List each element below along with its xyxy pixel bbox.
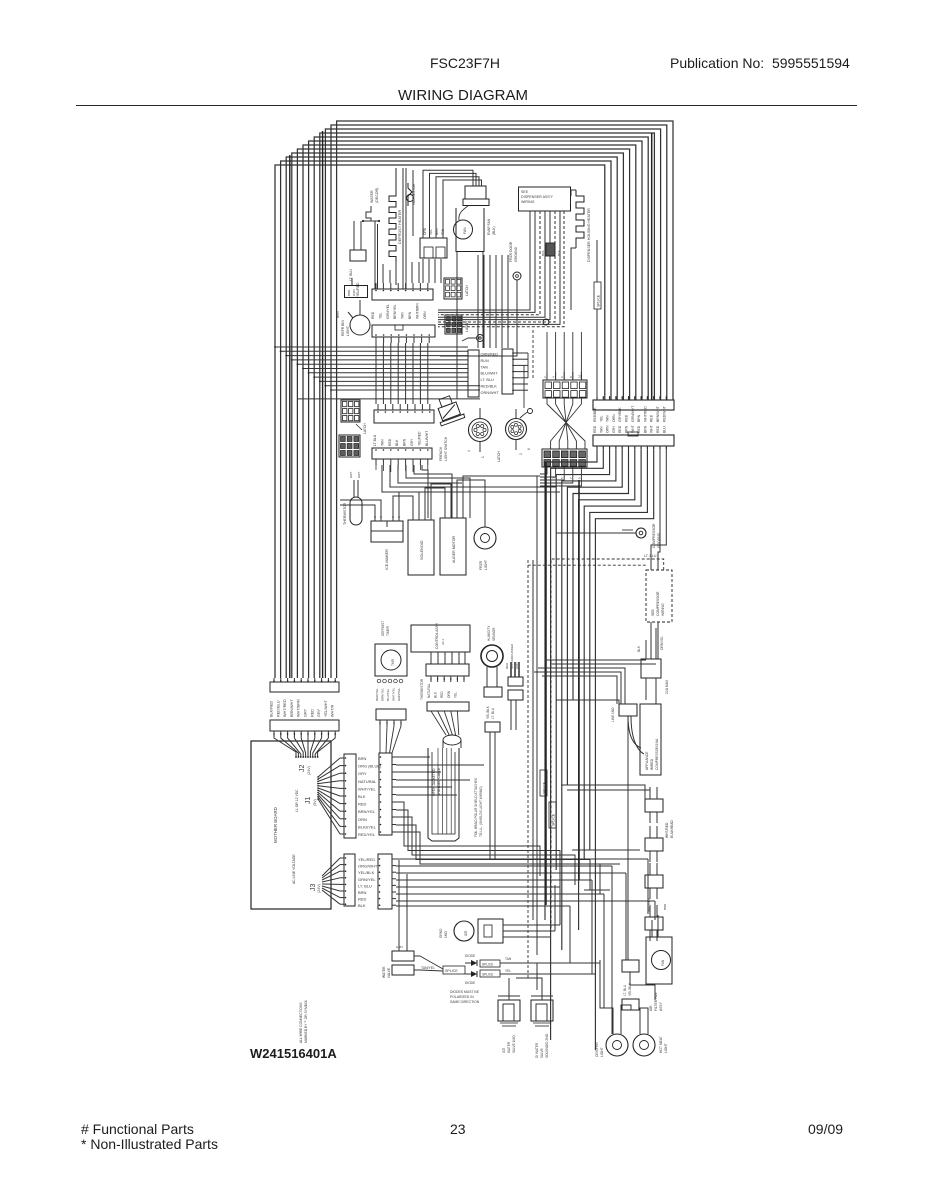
svg-text:RED: RED [505,662,509,669]
svg-text:LT. BLU: LT. BLU [623,984,627,996]
connector bar A1 (upper row) [371,283,433,319]
svg-text:BRN: BRN [643,425,647,433]
svg-text:HUMIDITY: HUMIDITY [487,625,491,641]
svg-text:(DECOR): (DECOR) [375,188,379,203]
svg-text:WATER: WATER [382,966,386,978]
svg-text:LT. BLU: LT. BLU [644,554,657,558]
ground eyelet near name strip [462,335,484,342]
svg-text:SPLICE: SPLICE [482,973,493,977]
header: publication number [670,55,850,71]
svg-text:ORN: ORN [423,311,427,319]
svg-text:SEE: SEE [651,608,655,616]
svg-text:YEL: YEL [599,415,603,422]
wire pair from junction row to bar A1 [375,221,378,289]
svg-text:BRN: BRN [336,311,340,318]
svg-text:BRN/YEL: BRN/YEL [358,809,376,814]
bottom long horizontal runs [510,880,600,974]
svg-text:FAN: FAN [661,959,665,966]
svg-text:ORG/WHT: ORG/WHT [358,864,378,869]
appliance wired compressor box [628,704,661,775]
latch 6-pin block C1 [341,400,367,434]
svg-text:TAN: TAN [606,415,610,422]
svg-text:GRY/BLK: GRY/BLK [618,407,622,422]
svg-text:LATCH: LATCH [363,423,367,434]
svg-text:YEL: YEL [453,692,457,698]
svg-text:LINE 1NO: LINE 1NO [611,707,615,722]
svg-text:COMPRESSOR: COMPRESSOR [652,523,656,548]
svg-text:FOIL BRAID POLAR SHIELD ATTACH: FOIL BRAID POLAR SHIELD ATTACHES [474,778,478,837]
control assy freezer box [420,664,469,700]
svg-text:LIGHT: LIGHT [346,326,350,336]
svg-text:BLK: BLK [557,250,561,256]
svg-text:BULKHEAD: BULKHEAD [670,820,674,838]
svg-text:RED/WHT: RED/WHT [662,406,666,422]
horizontal harness from left bus to control name box [274,346,480,399]
svg-text:VALVE 1MO: VALVE 1MO [512,1035,516,1053]
svg-text:TMR: TMR [391,658,395,666]
control assy freezer main box [411,622,470,664]
svg-text:LT BLU: LT BLU [373,434,377,446]
svg-text:SENSOR: SENSOR [492,627,496,641]
DI water valve solenoid [531,996,553,1058]
svg-text:ASSY: ASSY [659,1001,663,1011]
freezer connector box CN2 [420,227,447,258]
svg-text:TAN: TAN [401,312,405,319]
wax motor thermostat symbol [407,183,417,206]
svg-text:BRN/WHT: BRN/WHT [656,406,660,422]
compressor dashed box (SEE COMPRESSOR WIRING) [646,570,672,659]
svg-text:SPLICE: SPLICE [597,294,601,307]
svg-text:WHT/R: WHT/R [331,704,335,717]
auger motor box [440,510,466,575]
svg-text:8: 8 [569,376,573,378]
svg-text:ORG (BLUE): ORG (BLUE) [358,764,382,769]
svg-text:COMPRESSOR: COMPRESSOR [656,591,660,616]
svg-text:(24V): (24V) [307,766,311,775]
svg-text:RED/BLK: RED/BLK [481,385,498,389]
connector strip J3 with wire fan [322,854,355,906]
svg-text:YEL: YEL [505,969,511,973]
connector bar P2 (left bus, lower) [270,720,339,735]
svg-text:LT. BLU: LT. BLU [481,378,494,382]
svg-text:GROUND: GROUND [514,246,518,262]
svg-text:RED: RED [440,691,444,698]
svg-text:WHT/RED: WHT/RED [647,897,651,912]
splice box on dispenser harness [594,240,601,396]
door latch circular connector (right) [506,409,532,455]
svg-text:GRY: GRY [410,438,414,446]
svg-text:DISPENSER HOUSING HEATER: DISPENSER HOUSING HEATER [587,208,591,262]
svg-text:SAME DIRECTION: SAME DIRECTION [450,1000,480,1004]
defrost timer lower connector [376,709,406,726]
svg-text:TAN: TAN [380,439,384,446]
svg-text:BLU/WHT: BLU/WHT [481,372,499,376]
svg-text:RED: RED [310,709,314,717]
splice label boxes (vertical, mid-right) [540,770,556,828]
svg-text:SHIELDED CABLE: SHIELDED CABLE [437,767,441,796]
svg-text:REFR BIN: REFR BIN [341,320,345,336]
svg-text:BRN/YEL: BRN/YEL [381,688,385,701]
svg-text:ORN: ORN [606,425,610,433]
bulkhead connector chain (right column) [645,787,663,941]
svg-text:5: 5 [560,477,564,479]
harness wires from J1 strip into shielded cable [396,757,484,795]
svg-text:ORN: ORN [358,817,367,822]
svg-text:POLARIZED IN: POLARIZED IN [450,995,474,999]
vertical harness pair down center-left [403,168,413,289]
svg-text:YEL: YEL [378,312,382,319]
compressor relay box [637,628,669,704]
lamp feed wiring elbows [600,960,655,1015]
svg-text:SOLENOID 2MO: SOLENOID 2MO [545,1033,549,1058]
svg-text:GRN/YEL: GRN/YEL [397,687,401,701]
svg-text:WHT/BRN: WHT/BRN [297,699,301,717]
svg-text:BLK: BLK [434,691,438,698]
svg-text:TO U.L. (SHIELDS LIGHT WIRING): TO U.L. (SHIELDS LIGHT WIRING) [479,786,483,837]
svg-text:GRY: GRY [357,472,361,478]
svg-text:RED: RED [358,897,367,902]
line 1NO box [611,704,637,960]
evaporator fan assembly [454,186,497,399]
svg-text:BRN: BRN [358,890,367,895]
svg-text:10: 10 [577,374,581,378]
staircase harness from R2 descending left [545,450,666,1050]
svg-text:1: 1 [481,456,485,458]
connector strip J1 with wire fan [317,754,356,838]
svg-text:RED: RED [650,414,654,422]
footer: date [808,1121,843,1137]
svg-text:ORN/YEL: ORN/YEL [660,636,664,650]
svg-text:2: 2 [519,453,523,455]
svg-text:FAN: FAN [463,227,467,234]
compressor ground ring terminal [556,523,661,558]
svg-text:RUN: RUN [481,359,489,363]
fresh food light [336,300,370,336]
svg-text:SOLENOID: SOLENOID [420,540,424,560]
svg-text:TAN: TAN [505,957,512,961]
svg-text:THERMISTOR: THERMISTOR [420,678,424,700]
svg-text:LATCH: LATCH [465,285,469,296]
wire elbows feeding ice maker column [340,476,540,514]
bulkhead labels [647,820,674,912]
svg-text:L1 OR 12 VDC: L1 OR 12 VDC [295,789,299,812]
part number W241516401A [250,1046,337,1061]
svg-text:SPLICE: SPLICE [482,963,493,967]
harness block E1 (10-pin) [543,380,587,398]
J3 wire color labels [358,857,378,908]
connector bar A2 (lower row) [372,325,435,343]
svg-text:RED/YEL: RED/YEL [358,832,376,837]
note: foil shield attaches text [474,778,483,837]
svg-text:WHT/RED: WHT/RED [665,822,669,838]
svg-text:RED: RED [625,414,629,422]
svg-text:THERMISTOR: THERMISTOR [343,502,347,525]
interface strip K1 (J1 side) [379,753,396,835]
svg-text:ORN: ORN [423,227,427,235]
defrost timer label [381,621,390,636]
wires from CN2 box down to bar A1 [383,259,441,283]
svg-text:RED: RED [388,438,392,446]
svg-text:J3: J3 [310,884,317,892]
svg-text:BLK/RED: BLK/RED [270,700,274,717]
svg-text:GRY: GRY [612,425,616,433]
dark BLK wires within harness bus [290,131,652,678]
svg-text:GRN/YEL: GRN/YEL [386,304,390,319]
shielded cable funnel and jacket [428,711,461,841]
svg-text:VALVE: VALVE [540,1048,544,1058]
wire fan from P2 into mother board J2 [274,735,335,758]
svg-text:DISPENSER ASS'Y: DISPENSER ASS'Y [521,195,553,199]
right connector bar R1 [593,396,674,410]
ice fan assembly (bottom middle) [439,919,560,943]
svg-text:GRY: GRY [304,708,308,717]
humidity sensor circle [481,645,503,687]
svg-text:BLU/YEL: BLU/YEL [386,688,390,701]
svg-text:RED: RED [656,425,660,433]
svg-text:TAN: TAN [599,426,603,433]
wire fans between bars and latch blocks [376,465,560,518]
svg-text:DEFROST: DEFROST [381,621,385,636]
all-wire-connector note (vertical) [299,999,308,1043]
svg-text:(5V): (5V) [313,799,317,806]
svg-text:1MO: 1MO [444,931,448,938]
svg-text:BRN: BRN [408,311,412,319]
svg-text:6: 6 [527,448,531,450]
connector bar P1 (left bus, upper) [270,678,339,692]
footer: page number [450,1121,466,1137]
svg-text:J2: J2 [299,765,306,773]
footer: functional parts note [81,1121,194,1137]
svg-text:4: 4 [467,450,471,452]
svg-text:BLK&YEL: BLK&YEL [358,824,377,829]
svg-text:7: 7 [569,477,573,479]
svg-text:GROUND: GROUND [657,532,661,548]
control wire name strip (left) [468,350,499,397]
svg-text:3A 1: 3A 1 [441,639,445,645]
svg-text:YEL/BLK: YEL/BLK [358,870,375,875]
svg-text:LT. BLU: LT. BLU [491,707,495,719]
svg-text:BRN: BRN [403,438,407,446]
svg-text:RED: RED [593,425,597,433]
interface strip K3 (J3 side) [378,854,396,909]
control assy lower bar [427,702,469,711]
svg-text:HOT MEAT: HOT MEAT [659,1036,663,1053]
svg-text:GRY: GRY [317,708,321,717]
svg-text:FRZR DOOR: FRZR DOOR [509,241,513,262]
svg-text:WHT/RED: WHT/RED [643,406,647,422]
connector bar D2 [372,448,432,465]
freezer light switch (tilted) [433,393,465,461]
svg-text:LIGHT: LIGHT [484,560,488,570]
pin number labels around E-blocks [543,374,581,479]
svg-text:CRISPER: CRISPER [595,1042,599,1057]
svg-text:SPLICE: SPLICE [552,813,556,826]
connector bar D1 [373,404,434,446]
svg-text:ICE MAKER: ICE MAKER [385,549,389,570]
middle-right vertical bus with dashed neutral [528,476,537,980]
harness block E2 (10-pin, filled) [542,449,587,467]
svg-text:BLK: BLK [395,439,399,446]
lt.blu relay block [622,960,639,1010]
ice maker connector plate [371,514,403,570]
svg-text:6: 6 [560,376,564,378]
freezer light [474,510,496,570]
freezer door ground ring terminal [440,241,521,356]
svg-text:RED: RED [371,311,375,319]
note: diodes must be polarized [450,990,480,1004]
svg-text:LT. BLU: LT. BLU [358,883,372,888]
svg-text:ICE: ICE [464,930,468,936]
svg-text:FRZR: FRZR [479,560,483,570]
nested elbow harness from CN2 to evap fan connector [423,170,482,238]
svg-text:(24V): (24V) [317,884,321,893]
svg-text:NATURAL: NATURAL [358,779,377,784]
svg-text:ORN: ORN [447,690,451,698]
svg-text:BRN/WHT: BRN/WHT [290,699,294,717]
wire color labels between R1 and R2 [593,406,666,433]
svg-text:ALL WIRE CONNECTIONS: ALL WIRE CONNECTIONS [299,1002,303,1043]
svg-text:GRN/WHT: GRN/WHT [631,406,635,422]
svg-text:EVAP FAN: EVAP FAN [487,218,491,235]
svg-text:OPEN JACKETED: OPEN JACKETED [432,768,436,796]
svg-text:9: 9 [462,413,466,415]
timer wires to strip K1 [380,726,401,753]
door harness connector stack (right of sensor) [505,643,523,730]
svg-text:BLU/WHT: BLU/WHT [425,431,429,446]
svg-text:BRN: BRN [637,414,641,422]
svg-text:YEL/RED: YEL/RED [417,431,421,446]
header: model number [430,55,500,71]
eyelet on latch wire [543,319,549,325]
inline connector on dispenser harness [541,243,561,256]
svg-text:BRN: BRN [347,290,351,296]
latch contact block B2 (8-pin, filled) [445,315,469,334]
right connector bar R2 [593,432,674,450]
svg-text:GRN/YEL: GRN/YEL [358,877,376,882]
thermistor (capsule, mid-left) [343,472,362,525]
mother board (control board) [251,741,331,909]
svg-text:WHT/YEL: WHT/YEL [392,687,396,701]
svg-text:AUGER MOTOR: AUGER MOTOR [452,536,456,563]
svg-text:WHT/BRN: WHT/BRN [415,303,419,319]
svg-text:TAN/YEL: TAN/YEL [421,966,435,970]
svg-text:BLK: BLK [637,645,641,652]
svg-text:BLK: BLK [358,903,366,908]
sensor connector boxes [484,687,502,860]
ice water valve solenoid [498,996,520,1053]
svg-text:BLU: BLU [662,426,666,433]
svg-text:DIODE: DIODE [465,981,475,985]
svg-text:WIRING: WIRING [521,200,535,204]
svg-text:WATER: WATER [507,1041,511,1053]
svg-text:GRND: GRND [439,928,443,938]
svg-text:9: 9 [577,477,581,479]
svg-text:YEL/WHT: YEL/WHT [324,699,328,717]
svg-text:ORN: ORN [515,662,519,669]
svg-text:WHT: WHT [650,425,654,433]
svg-text:WIRED: WIRED [650,758,654,770]
svg-text:GRY: GRY [358,771,367,776]
svg-text:RED/BLU: RED/BLU [276,700,280,717]
defrost heater (square meander element) [389,168,402,285]
svg-text:AIR: AIR [649,1005,653,1011]
svg-text:SEE: SEE [521,190,529,194]
svg-text:BRN: BRN [358,756,367,761]
latch 8-pin block C2 (filled) [339,435,360,457]
wires dropping into block E1 from dispenser harness [533,330,581,380]
valve feed wires [509,963,542,996]
svg-text:ORN: ORN [612,414,616,422]
wire color labels between P1 and P2 [270,699,335,717]
svg-text:RED/BLK: RED/BLK [593,407,597,422]
door latch circular connector (left) [462,408,501,462]
middle bus horizontal branches [534,660,656,890]
svg-text:J1: J1 [305,797,312,805]
svg-text:WHT/RED: WHT/RED [283,699,287,717]
svg-text:WATER: WATER [370,190,374,203]
svg-text:BRN/YEL: BRN/YEL [393,304,397,319]
svg-text:20A MAX: 20A MAX [665,679,669,694]
wires bar A2 down to bar D1 [376,343,428,404]
crossing wire fan between E1 and E2 [540,372,585,486]
title rule [76,105,857,106]
svg-text:TIMER: TIMER [386,625,390,636]
title: WIRING DIAGRAM [398,87,528,104]
svg-text:RED: RED [618,425,622,433]
svg-text:WHT/YEL: WHT/YEL [358,786,377,791]
svg-text:RED: RED [358,802,367,807]
light switch block FF [345,278,368,298]
svg-text:APPLIANCE: APPLIANCE [645,751,649,770]
J1 wire color labels [358,756,382,837]
dispenser housing heater (zigzag) [571,190,591,310]
svg-text:COMPRESSOR/1NA: COMPRESSOR/1NA [655,738,659,770]
wire bus: nested harness loops around diagram top [275,121,673,678]
svg-text:BLK: BLK [541,250,545,256]
svg-text:ORN/RED: ORN/RED [481,353,499,357]
svg-text:TAN: TAN [481,365,489,369]
defrost timer box with motor circle [375,644,407,701]
svg-text:MARKED BY '*' OR SYMBOL: MARKED BY '*' OR SYMBOL [304,999,308,1043]
svg-text:DEFROST HEATER: DEFROST HEATER [398,209,402,244]
svg-text:4: 4 [552,376,556,378]
eyelet near latch connector [520,409,533,419]
svg-text:ORN/WHT: ORN/WHT [481,391,500,395]
svg-text:VALVE: VALVE [387,967,391,978]
humidity sensor label [487,625,496,641]
svg-text:NATURAL: NATURAL [427,683,431,698]
svg-text:NON-GROUNDED: NON-GROUNDED [510,643,514,669]
svg-text:DI WATER: DI WATER [535,1042,539,1058]
harness wires from J3 strip across to right side [396,859,655,1034]
svg-text:ICE: ICE [502,1048,506,1053]
solenoid box [408,512,434,575]
svg-text:WIRING: WIRING [661,603,665,616]
hot meat light [633,1015,668,1056]
harness wires from J1 strip wrapping below cable to right bus [396,802,600,894]
footer: non-illustrated note [81,1136,218,1152]
dispenser assembly box (SEE DISPENSER ASSY WIRING) [519,187,571,211]
svg-text:2: 2 [543,376,547,378]
water tube (decor) label [366,188,379,221]
svg-text:RED/YEL: RED/YEL [375,688,379,701]
defrost thermostat [349,220,380,297]
control wire name strip (right) [502,349,528,408]
dashed ground path to compressor box [528,559,664,930]
svg-text:(BLK): (BLK) [492,226,496,235]
svg-text:LIGHT SWITCH: LIGHT SWITCH [444,436,448,461]
svg-text:SPLICE: SPLICE [445,969,458,973]
